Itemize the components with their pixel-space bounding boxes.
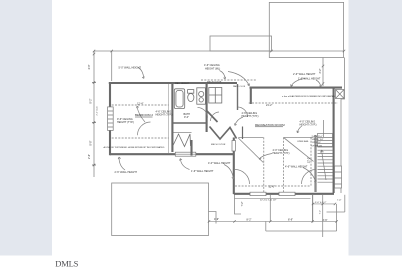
svg-text:RECREATION ROOM: RECREATION ROOM xyxy=(255,123,285,127)
svg-text:OPEN RAIL: OPEN RAIL xyxy=(297,140,309,143)
svg-text:MECH / STOR: MECH / STOR xyxy=(211,144,226,146)
svg-text:4'-6" WALL HEIGHT: 4'-6" WALL HEIGHT xyxy=(285,166,308,169)
svg-text:13T @ 10": 13T @ 10" xyxy=(312,142,322,144)
svg-text:4'-9": 4'-9" xyxy=(88,64,91,69)
svg-text:8'-2": 8'-2" xyxy=(247,219,252,222)
svg-text:HEIGHT (TYP.): HEIGHT (TYP.) xyxy=(242,115,259,118)
svg-text:9'-0": 9'-0" xyxy=(184,116,189,119)
svg-text:4'-9": 4'-9" xyxy=(214,218,219,221)
svg-text:HEIGHT (ML): HEIGHT (ML) xyxy=(205,68,220,71)
svg-text:BEDROOM 2: BEDROOM 2 xyxy=(135,113,153,117)
svg-text:MECH / STOR: MECH / STOR xyxy=(207,82,222,84)
svg-text:1'-6" WALL HEIGHT: 1'-6" WALL HEIGHT xyxy=(191,170,214,173)
svg-text:22'-2 & 1'-11 1/2": 22'-2 & 1'-11 1/2" xyxy=(260,200,277,202)
svg-text:a line of EASTERN ROW DORMER I: a line of EASTERN ROW DORMER INCORPORATE… xyxy=(282,95,335,98)
svg-text:1'-6": 1'-6" xyxy=(337,200,341,202)
svg-text:7'-2": 7'-2" xyxy=(241,201,244,206)
svg-text:3'-6": 3'-6" xyxy=(323,219,328,222)
svg-text:HEIGHT (TYP.): HEIGHT (TYP.) xyxy=(300,124,317,127)
svg-text:HEIGHT (TYP.): HEIGHT (TYP.) xyxy=(117,121,134,124)
svg-text:21'-2": 21'-2" xyxy=(266,104,272,107)
svg-text:HEIGHT (TYP.): HEIGHT (TYP.) xyxy=(156,114,173,117)
svg-text:3'-6" x 11'-0": 3'-6" x 11'-0" xyxy=(312,136,323,138)
svg-text:8'-8": 8'-8" xyxy=(90,140,93,145)
svg-text:WALL HEIGHT: WALL HEIGHT xyxy=(175,82,190,85)
svg-text:7'-2": 7'-2" xyxy=(320,210,322,215)
svg-text:12'-6": 12'-6" xyxy=(269,186,275,189)
svg-text:8'-9": 8'-9" xyxy=(288,219,293,222)
svg-text:2'-6" WALL HEIGHT: 2'-6" WALL HEIGHT xyxy=(115,171,138,174)
svg-text:8'-2": 8'-2" xyxy=(90,98,93,103)
svg-text:DMLS: DMLS xyxy=(55,259,78,268)
svg-text:2'-2" CLG: 2'-2" CLG xyxy=(97,106,99,115)
svg-text:HEIGHT (TYP.): HEIGHT (TYP.) xyxy=(273,152,290,155)
svg-text:1'-6" WALL HEIGHT: 1'-6" WALL HEIGHT xyxy=(298,78,321,81)
svg-text:12'-4": 12'-4" xyxy=(137,103,143,106)
svg-text:4'-0" WALL HEIGHT: 4'-0" WALL HEIGHT xyxy=(208,162,231,165)
svg-text:PAIR / CLOS: PAIR / CLOS xyxy=(233,85,246,88)
svg-text:3'-0" & 1'-2": 3'-0" & 1'-2" xyxy=(315,202,327,204)
svg-text:UP 14R DN: UP 14R DN xyxy=(312,145,323,147)
svg-text:2'-6" WALL HEIGHT: 2'-6" WALL HEIGHT xyxy=(293,73,316,76)
svg-text:A LINE OF "EXTENDED HOME INTER: A LINE OF "EXTENDED HOME INTERIOR" INCOR… xyxy=(104,146,165,149)
svg-text:2'-6": 2'-6" xyxy=(88,154,91,159)
svg-text:14R @ 7 3/4": 14R @ 7 3/4" xyxy=(312,139,324,141)
svg-text:12'-2": 12'-2" xyxy=(308,157,311,163)
svg-text:5'-0" WALL HEIGHT: 5'-0" WALL HEIGHT xyxy=(119,67,142,70)
svg-text:3'-2": 3'-2" xyxy=(319,68,322,73)
